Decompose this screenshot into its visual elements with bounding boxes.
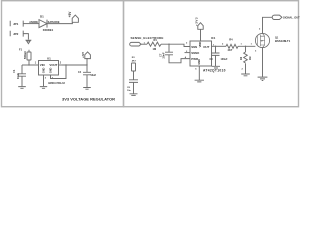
svg-text:1M: 1M [249,57,252,60]
connector JP2 [10,31,23,37]
svg-text:BSS138LT1: BSS138LT1 [275,39,291,43]
svg-text:SIGNAL_OUT: SIGNAL_OUT [283,16,300,20]
svg-text:2: 2 [242,68,244,70]
svg-text:1: 1 [251,43,253,45]
svg-text:SNSK: SNSK [191,51,200,55]
svg-text:3V3 VOLTAGE REGULATOR: 3V3 VOLTAGE REGULATOR [62,97,115,102]
junction C3 [215,46,216,47]
svg-text:C3: C3 [210,58,214,61]
svg-text:1: 1 [241,44,243,46]
ground (C3) [212,66,220,68]
wire VDD to +3V3 supply [200,29,202,41]
svg-text:500mA: 500mA [24,51,27,59]
svg-text:VOUT: VOUT [49,63,57,67]
wire JP2 to ground [23,34,28,40]
svg-text:3: 3 [45,77,47,79]
resistor R3 (floating branch) [132,57,137,80]
sheet frame left panel [2,1,124,107]
wire IC1 OUT to R4 [212,45,227,47]
svg-text:VDD: VDD [198,42,202,48]
junction C4/rail [86,64,87,65]
svg-text:4K7: 4K7 [132,60,137,63]
svg-text:JP1: JP1 [13,22,19,26]
capacitor C7 (sampling) [159,44,190,63]
diode D1 [39,14,60,32]
capacitor C4 [78,65,97,87]
touch IC1 [190,36,226,73]
svg-text:SENSE_ELECTRODE: SENSE_ELECTRODE [131,36,164,40]
capacitor C1 [12,65,26,86]
capacitor C3 [210,46,228,66]
svg-text:C4: C4 [78,71,82,74]
svg-text:JP2: JP2 [13,32,19,36]
svg-text:GND: GND [197,59,201,65]
junction C7 [168,44,169,45]
svg-text:2: 2 [259,29,261,31]
svg-text:+5V: +5V [68,11,72,18]
wire rail to +3V3 supply [86,59,89,65]
IC1 ground pin wire [198,66,200,80]
svg-text:10uF: 10uF [16,73,20,79]
ground (R2) [241,74,250,76]
ground (C8) [130,94,138,96]
sheet frame right panel [124,1,299,107]
svg-text:1: 1 [35,62,37,65]
svg-text:2: 2 [60,62,62,65]
svg-text:R3: R3 [132,57,136,59]
svg-text:D1: D1 [40,14,44,18]
pin 2 wire from U1 [59,64,63,66]
supply +5V [68,11,79,23]
wire Q1 source to ground [262,48,264,77]
svg-text:100uF: 100uF [221,58,228,61]
stub pin wire [185,52,191,54]
net label SENSE_ELECTRODE [130,36,164,46]
svg-text:AMS1117DG-33: AMS1117DG-33 [48,82,65,85]
output rail wire [62,64,87,66]
junction R2 [245,46,246,47]
svg-text:4K7: 4K7 [228,48,233,52]
svg-text:U1: U1 [47,57,51,61]
svg-text:GND: GND [50,67,53,73]
svg-text:R4: R4 [229,38,233,42]
wire Q1 drain to SIGNAL_OUT [263,17,273,33]
voltage regulator U1 [39,57,66,85]
net label SIGNAL_OUT [272,15,300,20]
svg-text:20nF: 20nF [162,52,166,58]
svg-text:DIODE1: DIODE1 [43,28,54,32]
svg-text:SNS: SNS [191,45,197,49]
svg-text:AT42QT1010: AT42QT1010 [203,69,226,73]
svg-text:3: 3 [255,51,257,53]
resistor R2 (pulldown) [240,46,252,74]
input rail wire [22,64,34,66]
junction fuse/rail [28,64,29,65]
svg-text:ANODE: ANODE [29,21,38,24]
svg-text:+3V3: +3V3 [194,17,198,26]
ground (Q1) [258,77,268,80]
wire JP1 to D1 anode [23,23,39,25]
supply +3V3 [82,51,90,58]
svg-text:5: 5 [195,69,197,71]
svg-text:2: 2 [186,43,188,45]
ground (C4) [83,88,91,90]
supply +3V3 (IC1) [194,17,203,29]
U1 gnd pin wire [43,75,45,86]
svg-text:10uF: 10uF [91,74,97,77]
U1 tab pin loop to output [51,65,67,79]
svg-text:GND: GND [43,67,46,73]
capacitor C8 [127,80,138,94]
ground (C1) [18,87,26,89]
wire label to R1 [141,43,147,45]
svg-text:R1: R1 [154,38,158,42]
svg-text:OUT: OUT [203,45,209,49]
connector JP1 [10,21,23,27]
wire D1 cathode to +5V supply [47,22,72,23]
fuse F1 [19,47,31,65]
svg-text:2: 2 [222,44,224,46]
resistor R1 [147,38,161,51]
junction tab/rail [65,64,66,65]
svg-text:IC1: IC1 [211,36,216,40]
wire R4 to Q1 gate [238,45,255,47]
svg-text:R2: R2 [240,56,243,60]
svg-text:F1: F1 [19,47,23,51]
svg-text:1M: 1M [153,47,157,51]
ground (JP2) [25,40,31,43]
svg-text:C1: C1 [12,69,16,73]
svg-text:10n: 10n [127,90,131,92]
ground (U1) [40,87,47,89]
ground (IC1) [195,80,204,82]
resistor R4 [226,38,238,53]
svg-text:C8: C8 [127,87,131,89]
wire R1 to IC1 pin 2 [161,44,190,46]
svg-text:VIN: VIN [40,63,45,67]
transistor Q1 [255,33,290,47]
svg-text:+3V3: +3V3 [82,51,85,58]
pin 1 wire into U1 [34,64,39,66]
